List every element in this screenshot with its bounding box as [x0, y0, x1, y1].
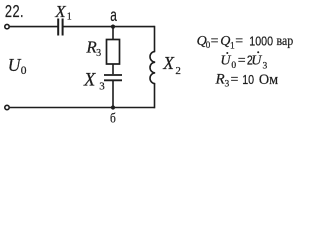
svg-text:R: R	[215, 72, 225, 88]
svg-text:Ом: Ом	[259, 71, 278, 87]
svg-text:3: 3	[99, 80, 105, 92]
svg-text:X: X	[162, 53, 175, 73]
svg-text:X: X	[83, 70, 96, 90]
svg-text:=: =	[235, 34, 243, 49]
svg-text:U: U	[8, 55, 22, 75]
svg-text:=: =	[238, 53, 246, 68]
svg-text:3: 3	[263, 61, 268, 71]
svg-text:U: U	[220, 53, 231, 68]
svg-text:U: U	[251, 53, 262, 68]
svg-text:10: 10	[242, 72, 254, 87]
svg-text:a: a	[110, 6, 117, 26]
svg-text:X: X	[54, 2, 66, 21]
svg-text:0: 0	[21, 65, 27, 77]
svg-text:=: =	[211, 34, 219, 49]
svg-text:Q: Q	[220, 34, 230, 49]
svg-text:3: 3	[96, 48, 101, 59]
svg-text:2: 2	[175, 65, 181, 77]
svg-text:3: 3	[225, 79, 230, 89]
svg-text:б: б	[110, 111, 116, 126]
svg-text:0: 0	[231, 61, 236, 71]
svg-text:22.: 22.	[5, 2, 24, 22]
svg-text:1000: 1000	[249, 33, 273, 48]
svg-text:1: 1	[67, 11, 72, 22]
svg-text:вар: вар	[277, 32, 294, 48]
svg-text:=: =	[231, 73, 239, 88]
